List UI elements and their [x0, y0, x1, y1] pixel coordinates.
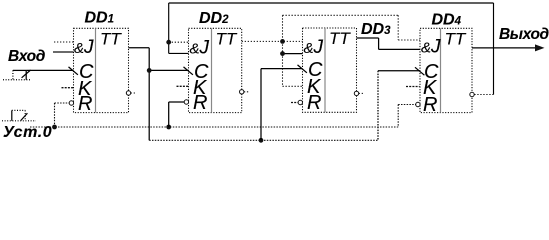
DD4 dynamic C input slash [415, 67, 424, 75]
DD3 dynamic C input slash [298, 65, 307, 73]
DD3 inverse output bubble and stub [354, 91, 358, 95]
JK flip-flop body U3 (DD3) [303, 28, 357, 112]
svg-text:TT: TT [445, 30, 467, 49]
DD2 K stub [177, 85, 189, 87]
svg-text:DD4: DD4 [432, 12, 462, 29]
DD4 inverse output bubble [470, 92, 474, 96]
DD4 K stub [406, 86, 420, 88]
svg-text:R: R [307, 92, 321, 114]
wire: J3 row net with dots (from FF2 right edge to FF3) [242, 40, 303, 42]
wire: riser to C4 [378, 71, 420, 141]
wire: Q2 to C3 [261, 68, 303, 70]
flip-flop DD4 [420, 28, 472, 116]
wire: Q̄4 stub to feedback riser [474, 94, 493, 96]
svg-text:R: R [78, 93, 92, 115]
wire: bottom run of Q1 net [149, 139, 378, 141]
JK flip-flop body U2 (DD2) [189, 28, 242, 112]
junction Q1/C2 [147, 68, 152, 73]
DD2 R inversion bubble [184, 100, 188, 104]
DD3 section divider [324, 28, 326, 112]
svg-text:&J: &J [190, 38, 210, 59]
svg-text:TT: TT [216, 30, 238, 49]
wire: Q1 output net (to C2, C4, J3) [129, 48, 189, 141]
DD4 section divider [440, 28, 442, 112]
wire: R2 riser [169, 102, 185, 127]
DD1 dynamic C input slash [69, 67, 78, 75]
svg-text:R: R [193, 92, 207, 114]
DD1 section divider [95, 28, 97, 112]
junction dot lower (J3 net) [280, 51, 285, 56]
JK flip-flop body U1 (DD1) [74, 28, 129, 112]
svg-text:TT: TT [100, 30, 122, 49]
flip-flop DD2 [189, 28, 242, 114]
wire: input clock line from pulse to C1 [26, 69, 73, 71]
JK flip-flop body U4 (DD4) [420, 28, 472, 112]
DD1 input stubs [53, 42, 74, 88]
DD1 R inversion bubble [69, 101, 73, 105]
svg-text:Выход: Выход [499, 26, 549, 43]
input pulse symbol (Вход waveform) [3, 70, 31, 80]
reset pulse symbol (Уст.0 waveform) [2, 110, 36, 120]
junction dot upper (J3 net) [280, 39, 285, 44]
wire: Q3 to J4 second input (step) [357, 38, 421, 49]
svg-text:Вход: Вход [8, 48, 46, 65]
wire: reset bus [30, 103, 416, 127]
svg-text:DD2: DD2 [199, 10, 229, 27]
DD1 inverse output bubble and stub [126, 91, 130, 95]
svg-text:R: R [423, 94, 437, 116]
svg-text:DD3: DD3 [361, 21, 391, 38]
DD2 section divider [211, 28, 213, 112]
svg-text:TT: TT [329, 29, 351, 48]
flip-flop DD3 [303, 28, 357, 114]
junction bottom run to J3 riser [259, 138, 264, 143]
DD4 R inversion bubble [416, 102, 420, 106]
svg-text:&J: &J [304, 37, 324, 58]
wire: top feedback Q̄4 to J2 (solid, y=3) [169, 3, 494, 95]
wire: dotted feedback to J4 over the top (y=15.3) [283, 15, 421, 41]
DD3 R stub and bubble [291, 102, 298, 104]
junction on reset bus at R2 riser [166, 125, 171, 130]
arrowhead output [535, 44, 545, 51]
DD2 inverse output bubble and stub [240, 90, 244, 94]
wire: vertical between dots and down to K3 [283, 41, 303, 86]
svg-text:&J: &J [74, 37, 94, 58]
svg-text:&J: &J [421, 37, 441, 58]
svg-text:DD1: DD1 [85, 10, 115, 27]
DD2 dynamic C input slash [184, 67, 193, 75]
wire: output line with arrow (Выход) [472, 47, 541, 49]
junction on reset bus at R1 riser [52, 125, 57, 130]
wire: J3 riser and J3 second input [261, 54, 303, 141]
flip-flop DD1 [74, 28, 129, 115]
wire: J2 first input (dotted) [169, 41, 189, 43]
junction J2 feedback dot [166, 40, 171, 45]
